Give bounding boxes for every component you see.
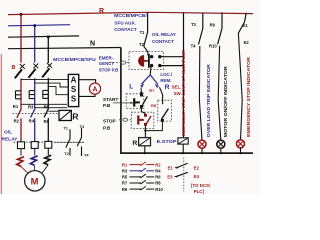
svg-text:R9: R9 [122,187,128,192]
svg-text:R9: R9 [210,22,216,27]
svg-text:CONTACT: CONTACT [152,39,174,44]
svg-text:E1: E1 [168,166,174,171]
svg-text:O/L RELAY: O/L RELAY [152,32,177,37]
svg-text:MCCB/MPCB/: MCCB/MPCB/ [114,13,147,18]
svg-text:R4: R4 [155,169,161,174]
svg-text:REM.: REM. [160,78,171,83]
svg-text:R3: R3 [122,169,128,174]
svg-text:R5: R5 [44,104,50,109]
svg-text:P.B: P.B [103,126,111,131]
svg-text:E2: E2 [244,40,250,45]
svg-text:P.B: P.B [103,103,111,108]
svg-text:GENCY: GENCY [99,61,115,66]
svg-text:R: R [99,8,104,15]
svg-text:STOP P.B: STOP P.B [99,68,119,73]
svg-text:STOP: STOP [103,119,116,124]
svg-text:O/L: O/L [4,130,12,136]
svg-text:R6: R6 [155,175,161,180]
svg-text:MCCB/MPCB/SFU: MCCB/MPCB/SFU [53,57,96,63]
svg-text:R1: R1 [122,162,128,167]
svg-text:R4: R4 [29,119,35,124]
svg-text:E2: E2 [194,166,200,171]
svg-text:CONTACT: CONTACT [114,27,137,32]
svg-text:R2: R2 [155,162,161,167]
svg-text:N: N [90,41,95,48]
svg-text:R: R [132,140,137,147]
svg-text:R3: R3 [28,104,34,109]
svg-text:OVER LOAD TRIP INDICATOR: OVER LOAD TRIP INDICATOR [206,64,211,138]
svg-text:E.STOP: E.STOP [157,139,177,144]
svg-text:A: A [92,84,97,93]
svg-text:T2: T2 [139,42,145,47]
svg-text:A: A [71,76,77,85]
svg-text:S: S [71,95,77,104]
svg-text:R: R [165,84,170,91]
svg-text:R: R [72,112,79,122]
svg-text:R1: R1 [13,104,19,109]
svg-text:R7: R7 [149,88,155,93]
svg-text:T1: T1 [140,30,146,35]
svg-text:EMERGENCY STOP INDICATOR: EMERGENCY STOP INDICATOR [246,56,251,137]
svg-text:E1: E1 [243,23,249,28]
svg-text:SFU AUX.: SFU AUX. [114,20,135,25]
svg-text:LOC./: LOC./ [160,72,172,77]
svg-text:R7: R7 [122,181,128,186]
svg-text:R8: R8 [155,181,161,186]
svg-text:EMER-: EMER- [99,55,114,60]
svg-text:L: L [129,84,133,91]
svg-text:E3: E3 [167,174,173,179]
svg-text:START: START [103,97,118,102]
svg-text:R5: R5 [122,175,128,180]
svg-text:T3: T3 [191,22,197,27]
svg-text:EMERGENCY STOP CONTACT MULTIPL: EMERGENCY STOP CONTACT MULTIPLIER [181,49,186,136]
svg-text:M: M [31,176,39,187]
svg-text:[TO DCS/: [TO DCS/ [191,183,211,188]
svg-text:R10: R10 [155,187,163,192]
svg-text:SEL.: SEL. [172,85,182,90]
svg-text:R2: R2 [14,119,20,124]
svg-text:RELAY: RELAY [2,137,19,143]
svg-text:B: B [12,65,16,71]
svg-text:MOTOR ON/OFF INDICATOR: MOTOR ON/OFF INDICATOR [223,66,228,138]
svg-text:S: S [71,85,77,94]
svg-text:PLC]: PLC] [194,189,205,194]
svg-text:E4: E4 [194,174,200,179]
svg-text:T4: T4 [191,44,197,49]
svg-text:R8: R8 [151,103,157,108]
svg-text:R10: R10 [209,44,217,49]
